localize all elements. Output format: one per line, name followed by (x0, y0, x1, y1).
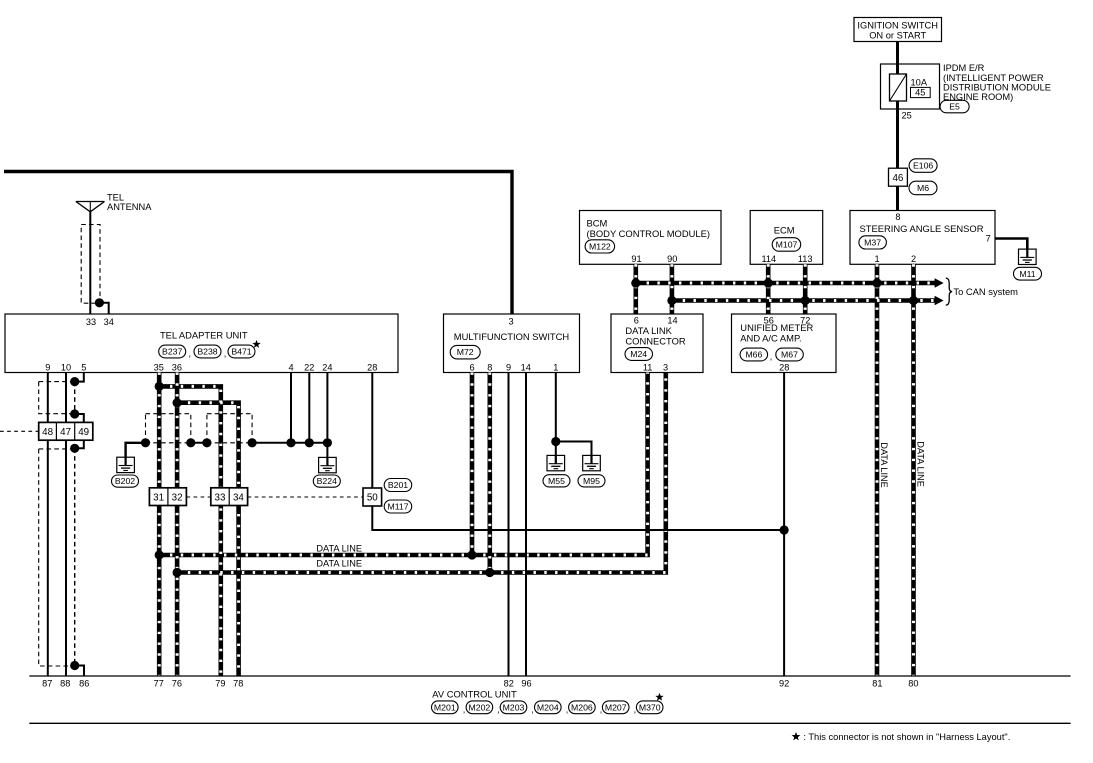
page link dashed line to connector 48 (0, 430, 39, 432)
ground B202 (117, 457, 135, 472)
svg-text:,: , (531, 705, 534, 715)
TEL pin 22 wire to ground line (308, 373, 310, 443)
svg-text:M202: M202 (469, 702, 491, 712)
svg-text:,: , (189, 349, 192, 359)
svg-text:DATA LINE: DATA LINE (916, 441, 926, 487)
junction ground line (248, 438, 257, 447)
svg-text:DISTRIBUTION MODULE: DISTRIBUTION MODULE (943, 82, 1051, 92)
svg-text:M24: M24 (630, 349, 647, 359)
antenna shield dashed box (81, 225, 100, 304)
svg-text:76: 76 (172, 679, 182, 689)
svg-text:,: , (566, 705, 569, 715)
MF pin 9 wire down to AV pin 82 (508, 373, 510, 677)
connector M66 (740, 348, 768, 361)
svg-text:M206: M206 (571, 702, 593, 712)
svg-text:B201: B201 (388, 480, 408, 490)
svg-text:9: 9 (506, 362, 511, 372)
ground line dashed segment C (207, 442, 252, 444)
svg-text:77: 77 (154, 679, 164, 689)
svg-text:M201: M201 (434, 702, 456, 712)
svg-text:24: 24 (322, 362, 332, 372)
svg-text:14: 14 (521, 362, 531, 372)
svg-text:8: 8 (487, 362, 492, 372)
svg-text:3: 3 (508, 316, 513, 326)
svg-text:DATA LINE: DATA LINE (879, 442, 889, 488)
svg-text:92: 92 (779, 679, 789, 689)
antenna coax center wire to TEL pin 33 (89, 212, 91, 314)
star mark for M370 (655, 693, 663, 701)
svg-text:32: 32 (172, 492, 183, 503)
junction ground line (323, 438, 332, 447)
connector M203 (500, 701, 527, 714)
TEL pin 5 wire jog to shield drain (75, 373, 84, 382)
svg-text:(INTELLIGENT POWER: (INTELLIGENT POWER (943, 73, 1044, 83)
connector cells 48 47 49 (39, 422, 93, 440)
svg-text:M67: M67 (781, 350, 798, 360)
svg-text:,: , (463, 705, 466, 715)
svg-text:46: 46 (892, 173, 903, 184)
junction ground line (286, 438, 295, 447)
svg-text:DATA LINE: DATA LINE (316, 559, 362, 569)
svg-text:1: 1 (553, 362, 558, 372)
junction DL1 MF6 (467, 550, 476, 559)
svg-text:B238: B238 (197, 347, 217, 357)
connector box 46 on ignition feed (889, 168, 908, 186)
svg-text:CONNECTOR: CONNECTOR (625, 335, 685, 346)
svg-text:E5: E5 (949, 102, 960, 112)
AV control unit bottom edge (29, 722, 1070, 724)
svg-text:E106: E106 (913, 161, 933, 171)
connector M204 (535, 701, 562, 714)
svg-text:6: 6 (634, 315, 639, 325)
junction drain top (70, 377, 79, 386)
svg-text:ECM: ECM (774, 224, 795, 235)
junction antenna shield (95, 298, 104, 307)
svg-text:28: 28 (779, 362, 789, 372)
connector M206 (569, 701, 596, 714)
svg-text:88: 88 (60, 679, 70, 689)
svg-text:50: 50 (367, 493, 378, 504)
data link connector box (611, 314, 703, 373)
junction M55 (551, 437, 560, 446)
BCM box (580, 211, 722, 265)
connector M207 (602, 701, 629, 714)
antenna shield drain to TEL pin 34 (99, 303, 108, 314)
svg-text:,: , (770, 352, 773, 362)
connector B238 (194, 345, 221, 358)
MF pin 1 wire to grounds M55 M95 (555, 373, 557, 456)
ground line dashed segment A (146, 442, 191, 444)
svg-text:56: 56 (764, 315, 774, 325)
svg-text:9: 9 (45, 362, 50, 372)
svg-text:B202: B202 (115, 476, 135, 486)
svg-text:48: 48 (42, 427, 53, 438)
junction branch 35 (155, 382, 164, 391)
svg-text:TEL: TEL (107, 192, 124, 202)
ground M55 (547, 455, 565, 470)
svg-text:AND A/C AMP.: AND A/C AMP. (740, 333, 801, 344)
svg-text:M122: M122 (589, 242, 611, 252)
junction CAN1 steering1 (872, 278, 881, 287)
junction drain bottom (70, 661, 79, 670)
svg-text:79: 79 (215, 679, 225, 689)
junction drain mid (70, 409, 79, 418)
svg-text:(BODY CONTROL MODULE): (BODY CONTROL MODULE) (587, 228, 710, 239)
svg-text:113: 113 (798, 254, 813, 264)
svg-text:MULTIFUNCTION SWITCH: MULTIFUNCTION SWITCH (454, 331, 569, 342)
svg-text:,: , (634, 705, 637, 715)
shield drain dashed segment 2 (74, 448, 76, 665)
svg-text:33: 33 (86, 317, 96, 327)
svg-text:72: 72 (800, 315, 810, 325)
svg-text:IGNITION SWITCH: IGNITION SWITCH (857, 21, 938, 31)
svg-text:22: 22 (304, 362, 314, 372)
svg-text:DATA LINE: DATA LINE (316, 543, 362, 553)
TEL pin 28 wire to UM pin 28 column (372, 373, 784, 531)
drain jog to AV pin 86 (75, 666, 84, 677)
TEL pin 4 wire to ground line (290, 373, 292, 443)
svg-text:36: 36 (172, 362, 182, 372)
shield dashed box around pins 35 36 (146, 413, 191, 415)
svg-text:5: 5 (81, 362, 86, 372)
MF pin 8 stub down to data line 2 (636, 281, 935, 286)
junction DL1 pin35 column (155, 550, 164, 559)
svg-text:ON or START: ON or START (869, 31, 926, 41)
ground line solid segment D (252, 442, 327, 444)
svg-text:IPDM E/R: IPDM E/R (943, 63, 985, 73)
ground collection line left (126, 443, 146, 457)
svg-text:10: 10 (61, 362, 71, 372)
connector M370 (636, 701, 663, 714)
footnote star (792, 732, 801, 740)
svg-text:M72: M72 (457, 347, 474, 357)
svg-text:31: 31 (153, 492, 164, 503)
svg-text:To CAN system: To CAN system (953, 286, 1018, 297)
svg-text:M207: M207 (605, 702, 627, 712)
svg-text:,: , (497, 705, 500, 715)
shield drain dashed segment 1 (74, 382, 76, 414)
junction branch 36 (173, 398, 182, 407)
svg-text:M11: M11 (1019, 269, 1035, 279)
ground M95 (583, 455, 601, 470)
brace to CAN system (946, 278, 952, 305)
ECM box (750, 211, 823, 265)
svg-text:TEL ADAPTER UNIT: TEL ADAPTER UNIT (160, 329, 248, 340)
svg-text:80: 80 (908, 679, 918, 689)
connector M107 (772, 238, 801, 252)
svg-text:3: 3 (663, 362, 668, 372)
TEL antenna symbol (76, 202, 105, 212)
svg-text:25: 25 (902, 110, 912, 120)
ground line solid segment B (191, 442, 207, 444)
dashed link 34-50 (248, 496, 363, 498)
TEL pin 9 wire down to AV pin 87 (47, 373, 49, 677)
connector cells 33 34 (211, 488, 248, 506)
svg-text:M6: M6 (917, 183, 929, 193)
junction ground line (141, 438, 150, 447)
connector cell 50 (363, 488, 382, 506)
svg-text:DATA LINK: DATA LINK (625, 325, 672, 336)
svg-text:90: 90 (667, 254, 677, 264)
svg-text:AV CONTROL UNIT: AV CONTROL UNIT (432, 688, 517, 699)
CAN1 arrowhead (935, 278, 944, 287)
svg-text:M95: M95 (583, 476, 600, 486)
junction TEL28-UM28 (780, 525, 789, 534)
connector E106 (909, 159, 937, 173)
connector B201 (384, 479, 412, 492)
connector B471 (228, 345, 255, 358)
svg-text:M204: M204 (537, 702, 559, 712)
svg-text:35: 35 (154, 362, 164, 372)
svg-text:7: 7 (986, 233, 991, 243)
tel adapter unit box (5, 314, 398, 373)
ignition feed wire (896, 42, 899, 211)
fuse F45 10A (890, 74, 907, 101)
shield dashed box upper around pins 9 10 (39, 381, 75, 383)
svg-text:ANTENNA: ANTENNA (107, 202, 152, 212)
svg-text:M37: M37 (864, 238, 881, 248)
svg-text:91: 91 (631, 254, 641, 264)
junction CAN2 ECM113 (801, 296, 810, 305)
junction ground line (202, 438, 211, 447)
ignition switch box (854, 18, 942, 42)
svg-text:78: 78 (233, 679, 243, 689)
star mark for B471 (252, 340, 260, 348)
svg-text:M66: M66 (745, 350, 762, 360)
connector M201 (432, 701, 459, 714)
unified meter and A/C amp box (732, 314, 837, 373)
svg-text:: This connector is not shown: : This connector is not shown in "Harnes… (802, 732, 1011, 742)
junction CAN1 BCM91 (631, 278, 640, 287)
junction ground line (186, 438, 195, 447)
svg-text:6: 6 (469, 362, 474, 372)
shield dashed box around pins 79 78 columns (207, 413, 252, 415)
connector M202 (466, 701, 493, 714)
TEL pin 24 wire to ground B224 (326, 373, 328, 458)
svg-text:11: 11 (643, 362, 653, 372)
svg-text:1: 1 (874, 254, 879, 264)
junction DL2 MF8 (485, 568, 494, 577)
svg-text:96: 96 (521, 679, 531, 689)
svg-text:87: 87 (42, 679, 52, 689)
connector M24 (625, 348, 653, 361)
connector M122 (585, 240, 615, 253)
svg-text:M370: M370 (639, 702, 661, 712)
svg-text:10A: 10A (911, 77, 928, 87)
shield dashed box lower around pins 87 88 (39, 448, 75, 450)
svg-text:34: 34 (233, 492, 244, 503)
svg-text:8: 8 (895, 212, 900, 222)
svg-text:B237: B237 (162, 347, 182, 357)
svg-text:28: 28 (367, 362, 377, 372)
connector M117 (384, 500, 412, 513)
svg-text:M55: M55 (548, 476, 565, 486)
svg-text:33: 33 (215, 492, 226, 503)
steering pin 7 wire to ground M11 (995, 239, 1027, 251)
ground B224 (319, 457, 337, 472)
svg-text:4: 4 (288, 362, 293, 372)
svg-text:49: 49 (78, 427, 89, 438)
TEL pin 10 wire down to AV pin 88 (65, 373, 67, 677)
svg-text:47: 47 (60, 427, 71, 438)
connector M72 (450, 345, 480, 359)
svg-text:M203: M203 (503, 702, 525, 712)
junction CAN1 ECM114 (764, 278, 773, 287)
connector M67 (776, 348, 804, 361)
steering angle sensor box (850, 211, 995, 265)
connector M37 (859, 236, 887, 249)
connector E5 (940, 100, 969, 113)
ground M11 (1019, 249, 1037, 264)
svg-text:,: , (224, 349, 227, 359)
drain jog through connector 49 (75, 414, 84, 448)
svg-text:STEERING ANGLE SENSOR: STEERING ANGLE SENSOR (860, 223, 984, 234)
junction ground line (305, 438, 314, 447)
svg-text:2: 2 (911, 254, 916, 264)
junction CAN2 steering2 (909, 296, 918, 305)
svg-text:81: 81 (872, 679, 882, 689)
UM pin 28 wire down to AV pin 92 (783, 373, 785, 677)
AV control unit top edge (29, 675, 1070, 677)
dashed link 32-33 (186, 496, 210, 498)
battery feed thick wire to MF pin 3 (4, 172, 512, 315)
svg-text:86: 86 (79, 679, 89, 689)
svg-text:M107: M107 (776, 240, 798, 250)
svg-text:M117: M117 (387, 502, 408, 512)
svg-text:B224: B224 (317, 476, 337, 486)
connector B237 (159, 345, 186, 358)
junction CAN2 BCM90 (667, 296, 676, 305)
svg-text:BCM: BCM (587, 217, 608, 228)
svg-text:,: , (600, 705, 603, 715)
multifunction switch box (444, 314, 580, 373)
junction DL2 pin36 column (173, 568, 182, 577)
IPDM E/R fuse block box (881, 64, 940, 109)
svg-text:82: 82 (504, 679, 514, 689)
junction drain below 49 (70, 444, 79, 453)
svg-text:14: 14 (667, 315, 677, 325)
svg-text:114: 114 (761, 254, 776, 264)
CAN2 arrowhead (935, 296, 944, 305)
svg-text:34: 34 (104, 317, 114, 327)
svg-text:45: 45 (915, 88, 925, 98)
svg-text:B471: B471 (231, 347, 251, 357)
connector cells 31 32 (149, 488, 186, 506)
MF pin 14 wire down to AV pin 96 (525, 373, 527, 677)
connector M6 (909, 181, 937, 195)
